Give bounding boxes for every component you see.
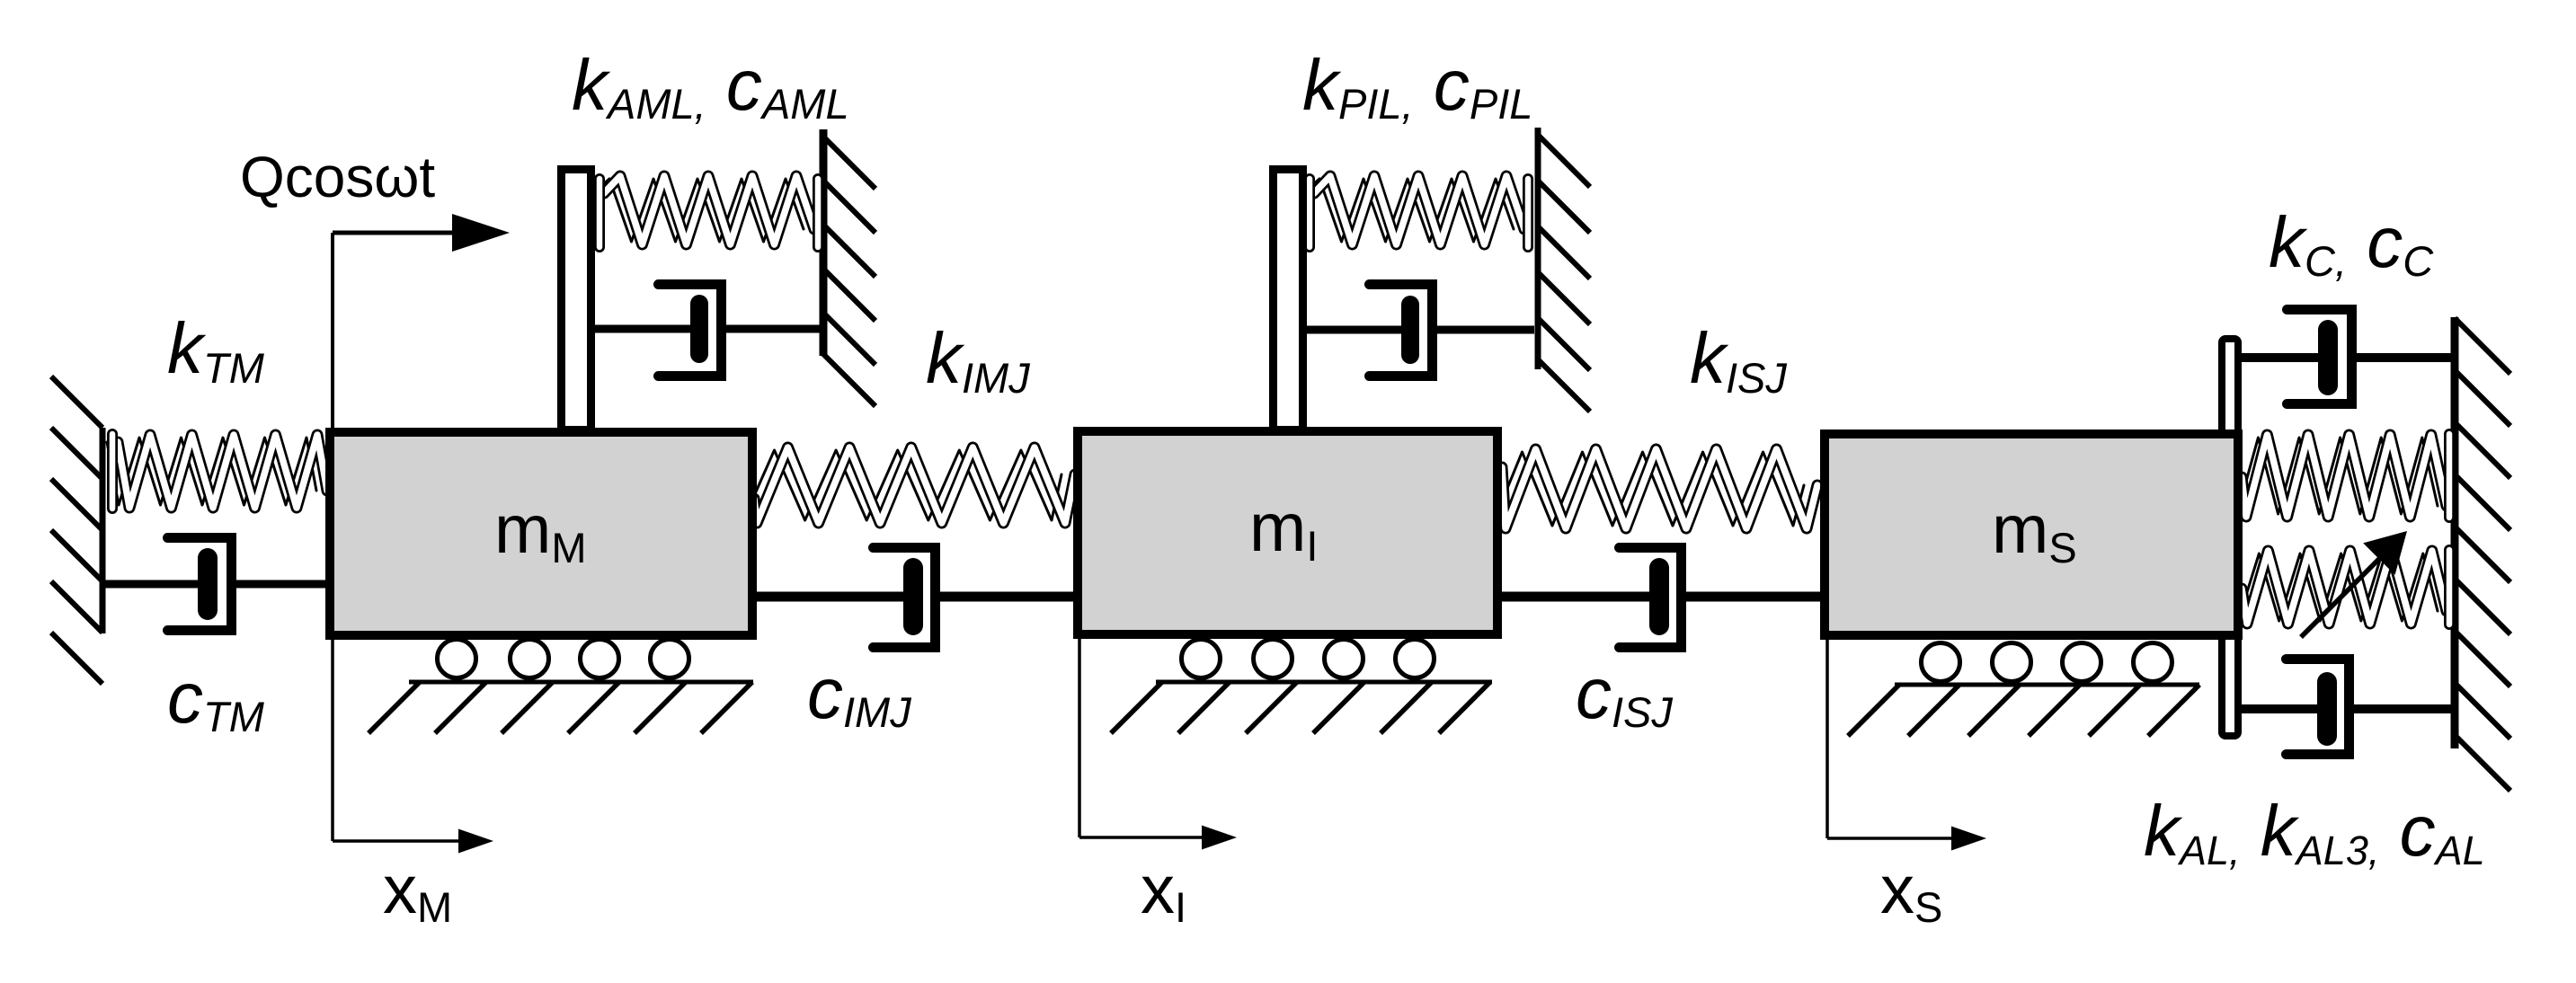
spring kAL upper [2233,434,2449,518]
spring kPIL [1303,176,1528,247]
mass mM [330,432,752,635]
damper cTM [100,538,334,631]
damper cAML [595,285,820,376]
spring kAL3 lower [2233,550,2449,624]
xM displacement arrow [333,640,493,854]
svg-text:Qcosωt: Qcosωt [240,145,435,209]
damper cPIL [1307,285,1534,376]
spring kTM [107,434,327,509]
spring kISJ [1488,449,1817,528]
ground under mS [1848,643,2199,737]
damper cIMJ [752,548,1078,648]
xI displacement arrow [1079,639,1237,850]
wall right (kAL anchor) [2455,317,2510,791]
xS displacement arrow [1827,640,1986,851]
damper kC-cC [2242,310,2453,404]
connecting plate on mass mS [2222,339,2238,736]
post on mass mI [1274,170,1303,430]
wall upper-left (kAML anchor) [823,129,875,406]
nonlinearity arrow through kAL3 [2301,531,2407,637]
mass mI [1078,431,1497,634]
damper cISJ [1502,548,1825,648]
damper cAL [2242,660,2453,755]
post on mass mM [562,170,591,430]
ground under mI [1111,640,1492,734]
spring kAML [593,176,818,247]
wall left (kTM anchor) [51,376,102,684]
mass mS [1825,434,2238,635]
spring kIMJ [741,447,1075,523]
force arrow Qcos wt [333,214,510,428]
ground under mM [369,640,753,734]
wall upper-middle (kPIL anchor) [1538,128,1590,412]
